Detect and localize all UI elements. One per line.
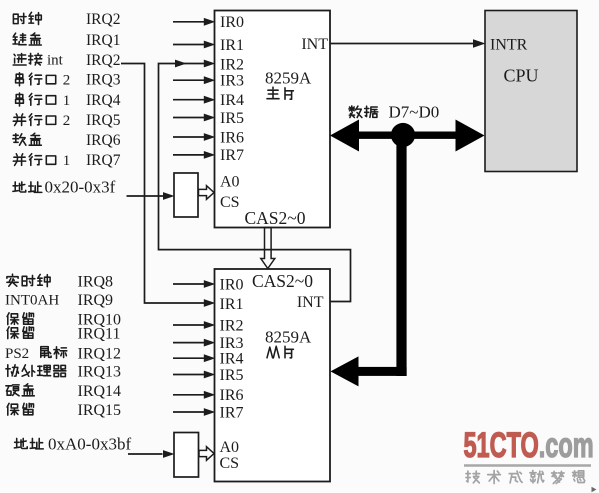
node label 并行口 2 IRQ row <box>13 112 120 129</box>
svg-text:IRQ8: IRQ8 <box>78 273 114 290</box>
svg-text:INTR: INTR <box>490 36 528 53</box>
pin label CS (master) <box>220 194 240 211</box>
junction dot on data bus <box>391 123 415 147</box>
svg-text:IR2: IR2 <box>220 56 244 73</box>
svg-text:IR2: IR2 <box>220 317 244 334</box>
value label 主片 (master) <box>267 87 293 99</box>
pin label IR4 (master) <box>220 92 244 109</box>
hollow select arrow decoder2 to slave A0/CS <box>199 447 214 461</box>
pin label CAS2~0 (master) <box>245 208 306 228</box>
wire IRQ into master IR5 <box>173 114 215 122</box>
svg-text:IRQ2: IRQ2 <box>86 11 120 28</box>
pin label IR1 (slave) <box>220 296 244 313</box>
svg-text:IRQ15: IRQ15 <box>78 402 122 419</box>
pin label CS (slave) <box>220 455 240 472</box>
pin label IR0 (slave) <box>220 276 244 293</box>
hollow cascade arrow CAS2~0 master to slave <box>261 228 275 269</box>
IC U1 8259A master chip box <box>215 11 331 228</box>
node label 地址 0x20-0x3f <box>13 178 116 197</box>
node label 时钟 IRQ row <box>13 11 120 28</box>
node label 保留 IRQ row <box>7 325 120 342</box>
wire IRQ into master IR7 <box>173 151 215 159</box>
svg-text:IR5: IR5 <box>220 367 244 384</box>
pin label IR3 (slave) <box>220 335 244 352</box>
pin label IR6 (slave) <box>220 387 244 404</box>
svg-text:IR3: IR3 <box>220 73 244 90</box>
pin label IR3 (master) <box>220 73 244 90</box>
wire address bus to decoder 2 <box>128 450 175 458</box>
pin label IR5 (slave) <box>220 367 244 384</box>
address decoder block 1 <box>174 173 198 217</box>
svg-text:IRQ13: IRQ13 <box>78 363 122 380</box>
pin label IR0 (master) <box>220 14 244 31</box>
value label 8259A (slave) <box>265 328 312 347</box>
svg-text:int: int <box>47 53 64 69</box>
pin label IR4 (slave) <box>220 351 244 368</box>
node label 硬盘 IRQ row <box>6 383 121 400</box>
svg-text:IR0: IR0 <box>220 14 244 31</box>
wire IRQ into slave IR4 <box>173 354 215 362</box>
address decoder block 2 <box>174 433 199 478</box>
thick data bus vertical segment <box>396 135 406 376</box>
wire IRQ into slave IR3 <box>173 339 215 347</box>
svg-text:CAS2~0: CAS2~0 <box>252 271 313 291</box>
wire IRQ into master IR6 <box>173 133 215 141</box>
svg-text:IRQ12: IRQ12 <box>78 345 122 362</box>
svg-text:IRQ2: IRQ2 <box>86 52 120 69</box>
svg-text:IR4: IR4 <box>220 92 244 109</box>
svg-text:CPU: CPU <box>504 66 539 86</box>
value label CPU <box>504 66 539 86</box>
svg-text:1: 1 <box>63 153 71 169</box>
wire IRQ into master IR4 <box>173 96 215 104</box>
wire slave INT to master IR2 <box>159 60 351 302</box>
svg-text:PS2: PS2 <box>5 346 29 362</box>
svg-text:IR0: IR0 <box>220 276 244 293</box>
pin label INT (master) <box>301 36 328 53</box>
svg-text:CAS2~0: CAS2~0 <box>245 208 306 228</box>
svg-text:D7~D0: D7~D0 <box>389 103 440 122</box>
logo 51CTO.com <box>464 426 594 465</box>
svg-text:INT: INT <box>301 36 328 53</box>
node label 串行口 2 IRQ row <box>16 72 121 89</box>
wire 连接int IRQ2 to slave IR1 <box>121 64 215 307</box>
IC U2 8259A slave chip box <box>215 269 331 482</box>
hollow select arrow decoder1 to master A0/CS <box>199 186 215 200</box>
pin label IR7 (slave) <box>220 404 244 421</box>
logo slogan 技术成就梦想 <box>466 471 585 484</box>
svg-text:CS: CS <box>220 194 240 211</box>
svg-text:IR4: IR4 <box>220 351 244 368</box>
node label PS2 鼠标 IRQ row <box>5 345 121 362</box>
thick data bus horizontal top with arrowheads <box>330 120 485 152</box>
node label 地址 0xA0-0x3bf <box>14 435 131 454</box>
pin label INT (slave) <box>297 294 324 311</box>
node label 键盘 IRQ row <box>13 32 120 49</box>
page corner mark <box>592 487 597 492</box>
svg-text:IRQ1: IRQ1 <box>86 32 120 49</box>
svg-text:IR7: IR7 <box>220 147 244 164</box>
pin label IR2 (master) <box>220 56 244 73</box>
node label 实时钟 IRQ row <box>7 273 113 290</box>
wire IRQ into master IR1 <box>173 41 215 49</box>
node label 软盘 IRQ row <box>13 132 121 149</box>
svg-text:A0: A0 <box>220 439 240 456</box>
wire IRQ into master IR0 <box>173 18 215 26</box>
wire IRQ into slave IR2 <box>173 321 215 329</box>
node label 串行口 1 IRQ row <box>16 92 121 109</box>
svg-text:IRQ9: IRQ9 <box>78 292 114 309</box>
node label 协处理器 IRQ row <box>6 363 121 380</box>
node label 连接 int IRQ row <box>13 52 120 69</box>
svg-text:IR6: IR6 <box>220 387 244 404</box>
wire address bus to decoder 1 <box>127 192 175 200</box>
node label 并行口 1 IRQ row <box>13 152 120 169</box>
node label INT0AH IRQ row <box>5 292 113 309</box>
svg-text:1: 1 <box>63 93 71 109</box>
svg-text:IR6: IR6 <box>220 129 244 146</box>
wire IRQ into slave IR5 <box>173 371 215 379</box>
pin label INTR (CPU) <box>490 36 528 53</box>
pin label IR2 (slave) <box>220 317 244 334</box>
wire IRQ into slave IR6 <box>173 391 215 399</box>
svg-text:IR1: IR1 <box>220 296 244 313</box>
svg-text:IRQ14: IRQ14 <box>78 383 122 400</box>
pin label IR6 (master) <box>220 129 244 146</box>
svg-text:IRQ5: IRQ5 <box>86 112 121 129</box>
thick data bus bottom arrow into slave <box>331 356 407 386</box>
svg-text:INT0AH: INT0AH <box>5 292 59 308</box>
svg-text:2: 2 <box>63 73 71 89</box>
svg-text:IR7: IR7 <box>220 404 244 421</box>
wire IRQ into master IR3 <box>173 76 215 84</box>
svg-text:IRQ7: IRQ7 <box>86 152 121 169</box>
logo divider line <box>464 464 591 467</box>
svg-text:IRQ6: IRQ6 <box>86 132 121 149</box>
svg-text:IRQ3: IRQ3 <box>86 72 121 89</box>
svg-text:8259A: 8259A <box>265 328 312 347</box>
pin label A0 (master) <box>220 174 240 191</box>
pin label A0 (slave) <box>220 439 240 456</box>
svg-text:2: 2 <box>63 113 71 129</box>
node label 保留 IRQ row <box>7 311 121 328</box>
svg-text:51CTO.com: 51CTO.com <box>464 426 594 465</box>
svg-text:INT: INT <box>297 294 324 311</box>
value label 从片 (slave) <box>267 346 293 358</box>
svg-text:8259A: 8259A <box>265 68 312 87</box>
svg-text:IR1: IR1 <box>220 37 244 54</box>
wire IRQ into slave IR7 <box>173 408 215 416</box>
wire master INT to CPU INTR <box>330 39 486 47</box>
svg-text:IRQ11: IRQ11 <box>78 325 121 342</box>
svg-text:0xA0-0x3bf: 0xA0-0x3bf <box>48 435 131 454</box>
svg-text:0x20-0x3f: 0x20-0x3f <box>45 178 116 197</box>
svg-text:IRQ4: IRQ4 <box>86 92 121 109</box>
node label 保留 IRQ row <box>7 402 121 419</box>
svg-text:A0: A0 <box>220 174 240 191</box>
pin label IR5 (master) <box>220 110 244 127</box>
net label 数据 D7~D0 <box>349 103 439 122</box>
pin label IR1 (master) <box>220 37 244 54</box>
pin label CAS2~0 (slave) <box>252 271 313 291</box>
svg-text:IR5: IR5 <box>220 110 244 127</box>
svg-text:CS: CS <box>220 455 240 472</box>
wire IRQ into slave IR0 <box>173 280 215 288</box>
IC U3 CPU box <box>485 11 577 172</box>
value label 8259A (master) <box>265 68 312 87</box>
pin label IR7 (master) <box>220 147 244 164</box>
svg-text:IR3: IR3 <box>220 335 244 352</box>
